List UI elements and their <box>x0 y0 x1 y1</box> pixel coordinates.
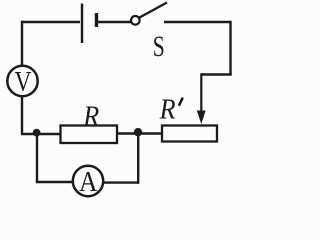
wire left vertical (top corner down to lower-left node) <box>21 21 23 134</box>
wire step left <box>201 73 231 75</box>
wire top-left horizontal <box>21 21 80 23</box>
svg-text:R: R <box>82 101 99 133</box>
wire resistor to left vertical <box>21 133 61 135</box>
wire bottom-left to ammeter <box>36 181 73 183</box>
svg-text:V: V <box>15 67 32 98</box>
switch S <box>131 3 167 25</box>
wiper arrow onto rheostat <box>197 73 206 124</box>
wire rheostat to right node <box>117 132 162 134</box>
junction node left <box>33 129 41 137</box>
wire left node down <box>36 133 38 182</box>
svg-text:A: A <box>79 166 98 198</box>
junction node right <box>134 128 142 136</box>
voltmeter V <box>7 66 37 98</box>
svg-text:S: S <box>153 30 165 63</box>
wire switch to top-right corner <box>164 21 231 23</box>
wire ammeter to right riser <box>103 181 138 183</box>
svg-text:R: R <box>159 94 176 126</box>
ammeter A <box>73 166 103 198</box>
rheostat R' <box>162 126 217 142</box>
wire right riser up to node <box>137 132 139 184</box>
battery cell <box>82 4 97 44</box>
resistor R <box>61 126 118 144</box>
wire battery to switch <box>98 21 131 23</box>
wire right vertical <box>229 21 231 76</box>
